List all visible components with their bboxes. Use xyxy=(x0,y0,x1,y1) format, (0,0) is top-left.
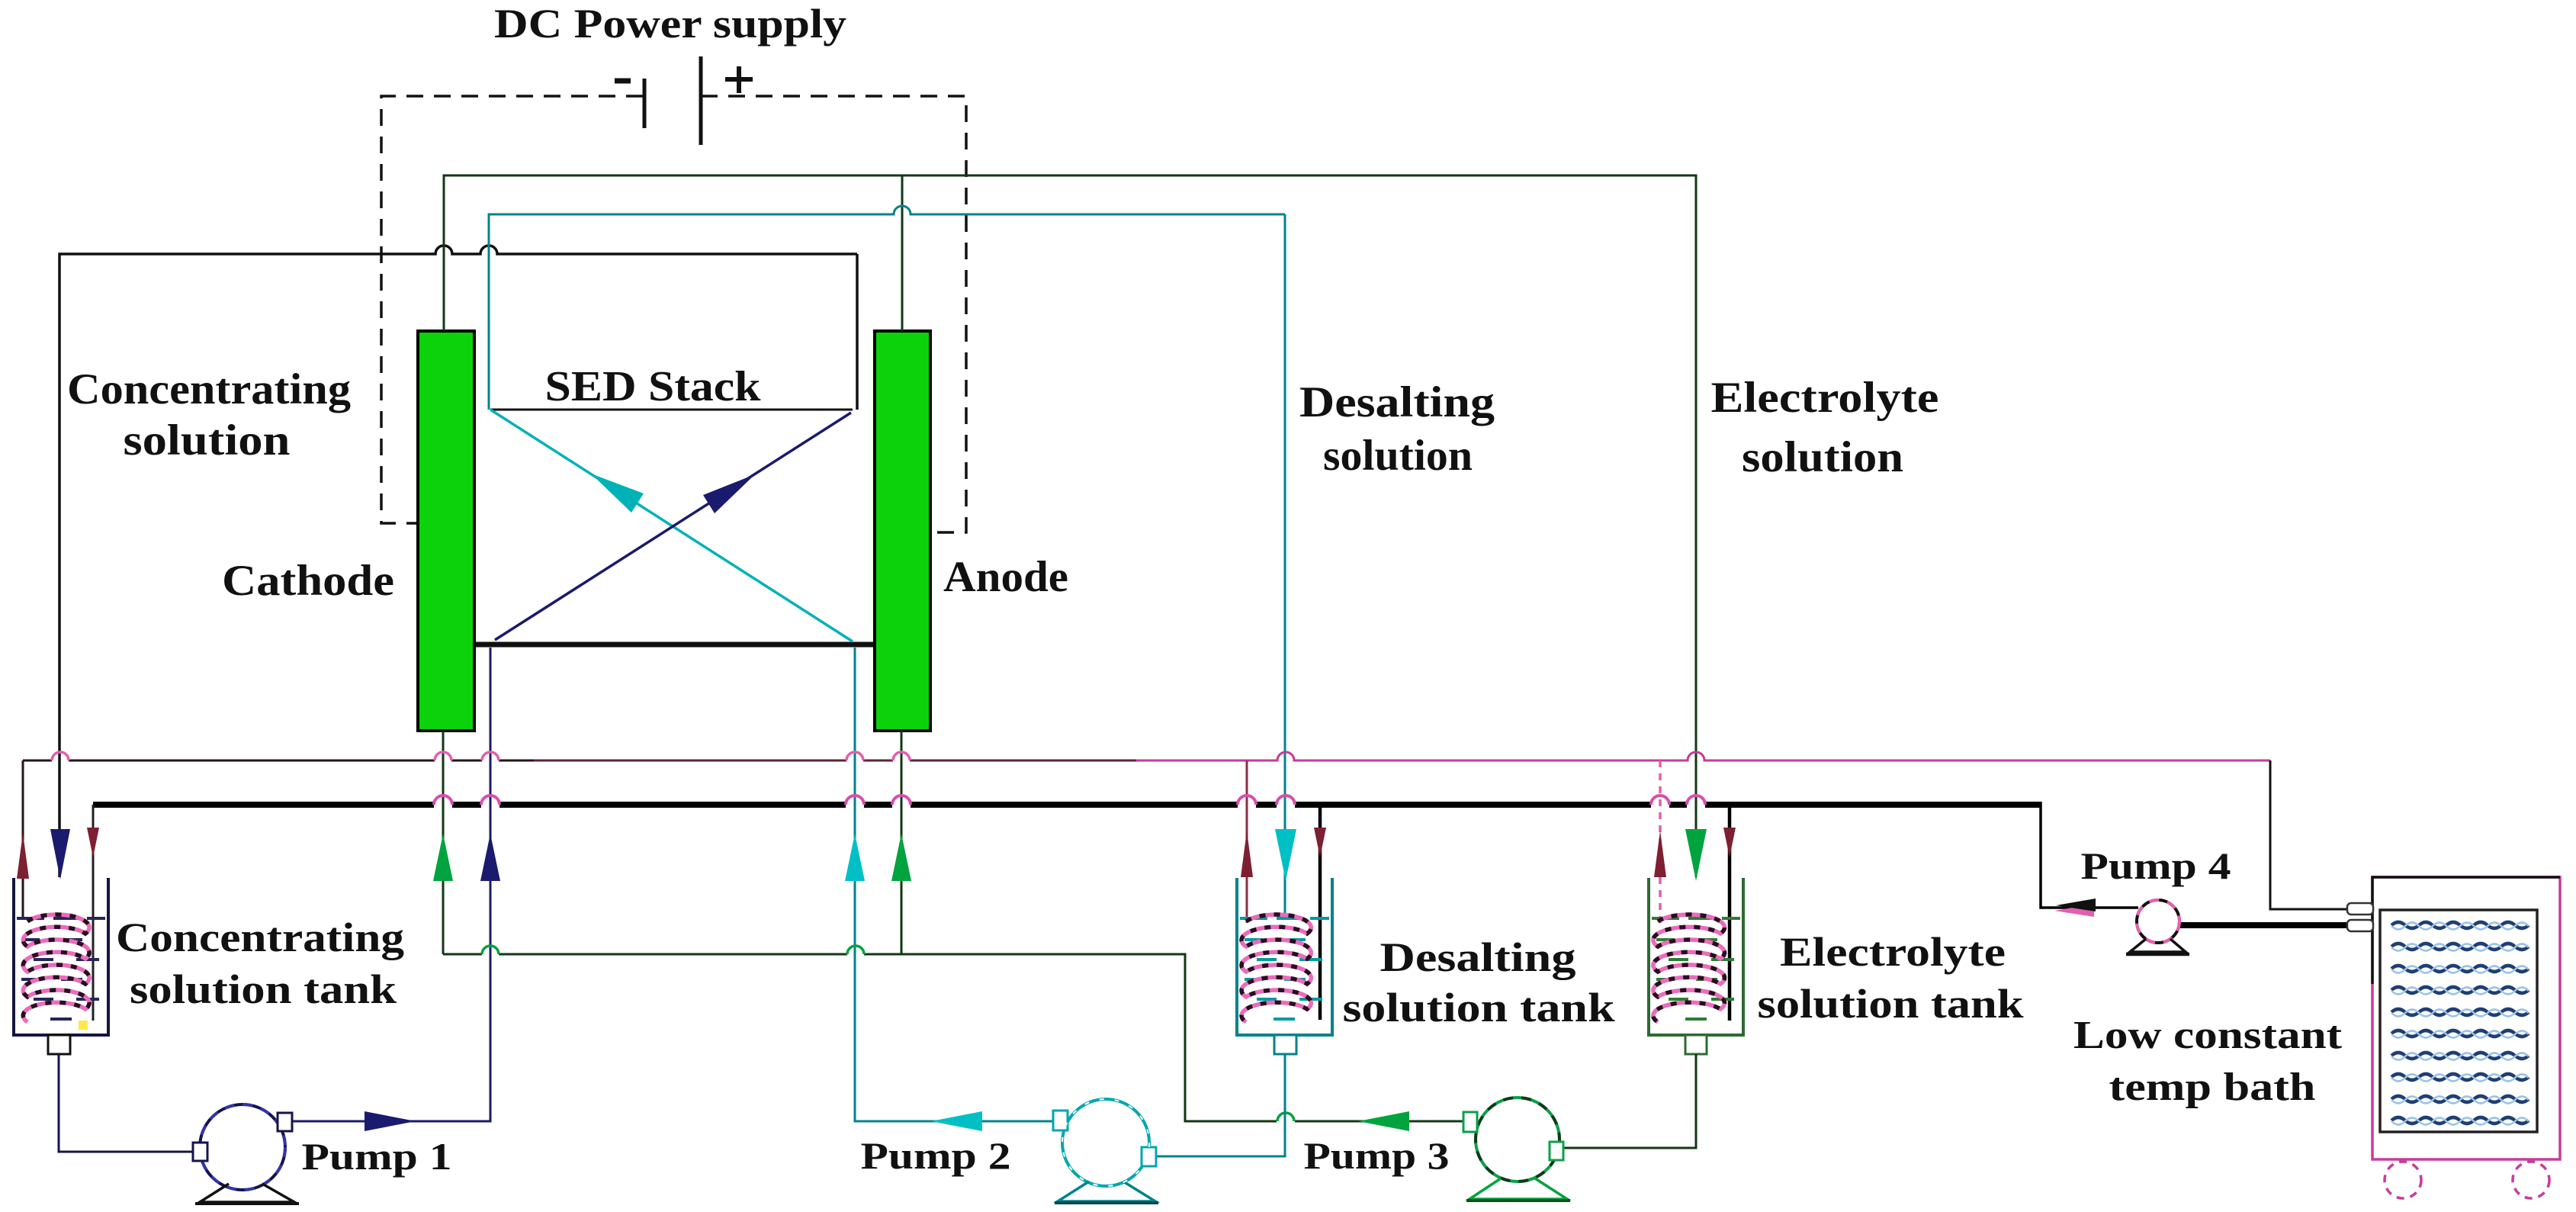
svg-text:Anode: Anode xyxy=(943,553,1068,601)
svg-text:solution tank: solution tank xyxy=(1343,985,1615,1030)
svg-text:solution tank: solution tank xyxy=(130,966,397,1012)
svg-text:Low constant: Low constant xyxy=(2073,1014,2343,1057)
svg-text:Pump 3: Pump 3 xyxy=(1304,1134,1450,1177)
svg-text:Pump 2: Pump 2 xyxy=(861,1134,1011,1177)
svg-text:Electrolyte: Electrolyte xyxy=(1780,929,2006,975)
svg-text:Cathode: Cathode xyxy=(222,557,394,605)
svg-text:DC Power supply: DC Power supply xyxy=(494,1,846,47)
svg-text:Concentrating: Concentrating xyxy=(67,365,351,413)
svg-text:temp bath: temp bath xyxy=(2109,1066,2316,1109)
svg-text:Concentrating: Concentrating xyxy=(116,915,404,960)
svg-text:solution: solution xyxy=(1742,433,1903,481)
svg-text:Electrolyte: Electrolyte xyxy=(1711,374,1939,422)
svg-text:solution: solution xyxy=(1323,432,1473,480)
svg-text:Pump 4: Pump 4 xyxy=(2081,844,2231,887)
svg-text:SED Stack: SED Stack xyxy=(545,363,762,410)
svg-text:Desalting: Desalting xyxy=(1380,934,1576,980)
svg-text:Pump 1: Pump 1 xyxy=(302,1135,452,1178)
svg-text:solution tank: solution tank xyxy=(1758,981,2024,1027)
svg-text:Desalting: Desalting xyxy=(1299,378,1495,426)
svg-text:solution: solution xyxy=(124,416,291,465)
